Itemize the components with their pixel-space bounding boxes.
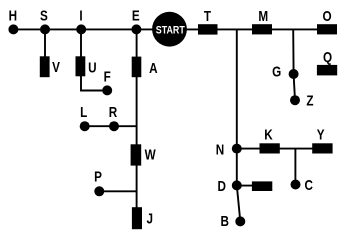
- svg-text:V: V: [52, 59, 60, 75]
- node F: [102, 85, 112, 95]
- bar W: [131, 144, 142, 165]
- svg-text:R: R: [109, 104, 118, 120]
- svg-text:M: M: [258, 8, 268, 24]
- bar T: [198, 24, 218, 34]
- bar V: [40, 56, 50, 77]
- svg-text:B: B: [220, 213, 228, 229]
- bar Q: [317, 65, 337, 76]
- wire I drop through U to elbow: [81, 29, 107, 90]
- node C: [291, 180, 301, 190]
- wire C drop: [294, 149, 296, 185]
- svg-text:A: A: [149, 60, 158, 76]
- svg-text:O: O: [322, 8, 331, 24]
- node L: [80, 121, 90, 131]
- bar K: [260, 143, 280, 153]
- svg-text:Q: Q: [323, 49, 332, 65]
- svg-text:START: START: [156, 24, 185, 36]
- svg-text:I: I: [79, 7, 82, 23]
- node S: [40, 24, 50, 34]
- wire E drop through A and W to J: [136, 29, 138, 212]
- wire D stub: [237, 185, 254, 187]
- svg-text:U: U: [88, 59, 96, 75]
- svg-text:W: W: [145, 146, 157, 162]
- wire P branch: [99, 190, 136, 192]
- bar Y: [312, 143, 332, 153]
- bar U: [76, 56, 86, 76]
- svg-text:H: H: [9, 7, 17, 23]
- svg-text:J: J: [146, 210, 153, 226]
- wire N-K-Y branch: [237, 148, 332, 150]
- wire G-Z drop from top line: [293, 29, 295, 100]
- node START: [152, 12, 187, 47]
- node N: [232, 144, 242, 154]
- svg-text:F: F: [104, 68, 111, 84]
- node Z: [290, 95, 300, 105]
- node B: [235, 216, 245, 226]
- node G: [289, 69, 299, 79]
- svg-text:Z: Z: [306, 92, 313, 108]
- bar at D: [252, 181, 272, 191]
- node H: [8, 24, 18, 34]
- node P: [94, 186, 104, 196]
- svg-text:D: D: [217, 178, 225, 194]
- svg-text:C: C: [304, 177, 313, 193]
- svg-text:T: T: [204, 8, 211, 24]
- svg-text:L: L: [80, 104, 87, 120]
- node R: [109, 121, 119, 131]
- svg-text:Y: Y: [317, 126, 325, 142]
- svg-text:N: N: [216, 141, 224, 157]
- node D: [232, 180, 242, 190]
- svg-text:K: K: [264, 126, 273, 142]
- svg-text:G: G: [272, 63, 281, 79]
- svg-text:E: E: [132, 7, 140, 23]
- bar A: [132, 57, 142, 78]
- node I: [76, 24, 86, 34]
- bar M: [252, 24, 272, 34]
- wire L-R branch: [85, 125, 137, 127]
- wire S drop to V: [44, 29, 46, 58]
- svg-text:S: S: [40, 7, 48, 23]
- svg-text:P: P: [94, 169, 102, 185]
- bar J: [132, 207, 142, 229]
- wire N drop from top line to D and B: [237, 29, 241, 221]
- node E: [131, 24, 141, 34]
- wire main top line H-S-I-E-START-T-M-O: [13, 28, 337, 30]
- bar O: [317, 24, 337, 34]
